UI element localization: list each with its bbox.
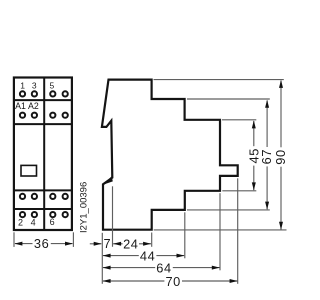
extension line top 45 (222, 119, 256, 121)
terminal circle row1 c1 (20, 91, 25, 96)
extension line bottom 45 (222, 190, 256, 192)
dimension line 45 (253, 121, 255, 146)
terminal circle row1 c4 (63, 91, 68, 96)
svg-text:24: 24 (123, 236, 138, 251)
arrow 70 left (103, 279, 111, 283)
terminal circle row4 c2 (32, 212, 37, 217)
svg-text:4: 4 (31, 218, 36, 228)
extension line top 67 (187, 98, 270, 100)
svg-text:70: 70 (165, 274, 180, 289)
terminal circle row1 c2 (32, 91, 37, 96)
extension line 36 right (72, 232, 74, 247)
extension line side left (101, 233, 103, 284)
extension line 24 right (151, 233, 153, 247)
front view top terminal row line (14, 99, 72, 101)
terminal circle row4 c3 (50, 212, 55, 217)
side view outline (102, 80, 238, 230)
arrow 7 leader (94, 242, 102, 246)
arrow 64 left (103, 266, 111, 270)
svg-text:5: 5 (50, 80, 55, 90)
svg-text:2: 2 (18, 218, 23, 228)
terminal circle row3 c1 (20, 194, 25, 199)
dimension line 64 (103, 267, 155, 269)
arrow 44 right (177, 254, 185, 258)
arrow 67 top (265, 100, 269, 108)
extension line 44 right (184, 212, 186, 258)
svg-text:44: 44 (140, 248, 155, 263)
svg-text:6: 6 (50, 217, 55, 227)
svg-text:36: 36 (34, 236, 49, 251)
dimension line 24 (113, 243, 123, 245)
arrow 45 top (252, 120, 256, 128)
dimension leader 7 (90, 243, 102, 245)
arrow 44 left (103, 254, 111, 258)
front view top block bottom line (14, 123, 72, 125)
dimension line 36 (15, 243, 33, 245)
extension line top 90 (154, 79, 284, 81)
extension line 36 left (13, 232, 15, 247)
extension line 64 right (219, 193, 221, 270)
dimension line 90 (280, 81, 282, 148)
terminal circle row3 c3 (50, 194, 55, 199)
arrow 24 right (143, 242, 151, 246)
terminal circle row2 c1 (20, 113, 25, 118)
dimension line 67 (266, 101, 268, 148)
front view outline (14, 78, 72, 231)
arrow 36 right (65, 242, 73, 246)
dimension line 44 (103, 255, 139, 257)
terminal circle row2 c4 (63, 113, 68, 118)
terminal circle row4 c4 (63, 212, 68, 217)
svg-text:3: 3 (32, 81, 37, 91)
extension line rail groove (112, 186, 114, 247)
extension line 70 right (237, 178, 239, 283)
svg-text:90: 90 (273, 149, 288, 164)
terminal circle row3 c2 (32, 194, 37, 199)
front view module divider (43, 78, 45, 231)
arrow 90 bottom (279, 222, 283, 230)
terminal circle row2 c2 (32, 113, 37, 118)
svg-text:67: 67 (259, 149, 274, 164)
extension line bottom 67 (187, 209, 270, 211)
svg-text:7: 7 (104, 236, 112, 251)
dimension line 70 (103, 280, 164, 282)
svg-text:1: 1 (20, 81, 25, 91)
switch indicator window (21, 165, 37, 176)
terminal circle row4 c1 (20, 212, 25, 217)
arrow 64 right (212, 266, 220, 270)
DIN clip wedge (103, 176, 113, 185)
terminal circle row1 c3 (50, 91, 55, 96)
arrow 90 top (279, 80, 283, 88)
front view bottom block top line (14, 189, 72, 191)
arrow 45 bottom (252, 182, 256, 190)
extension line bottom 90 (154, 229, 287, 231)
svg-text:A2: A2 (28, 101, 39, 111)
svg-text:I2Y1_00396: I2Y1_00396 (78, 182, 89, 233)
arrow 70 right (230, 279, 238, 283)
arrow 67 bottom (265, 202, 269, 210)
front view bottom terminal row line (14, 208, 72, 210)
arrow 36 left (14, 242, 22, 246)
svg-text:A1: A1 (15, 101, 26, 111)
terminal circle row2 c3 (50, 113, 55, 118)
terminal circle row3 c4 (63, 194, 68, 199)
arrow 24 left (113, 242, 121, 246)
